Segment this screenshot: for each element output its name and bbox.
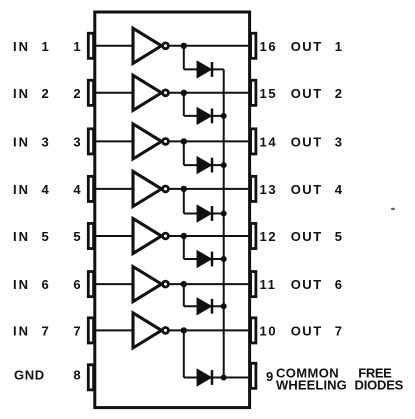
svg-text:14: 14: [260, 134, 278, 149]
wire input pin 6 to inverter F: [95, 283, 133, 285]
svg-text:1: 1: [42, 39, 49, 54]
diode D4 cathode bar: [211, 206, 214, 221]
node F junction dot: [181, 281, 187, 287]
wire inverter B output to pin 15: [166, 92, 250, 94]
svg-text:8: 8: [73, 368, 80, 383]
node B junction dot: [181, 90, 187, 96]
svg-text:15: 15: [260, 86, 278, 101]
inverter B output bubble: [163, 90, 169, 96]
svg-text:4: 4: [42, 182, 50, 197]
svg-text:IN: IN: [13, 134, 30, 149]
svg-text:1: 1: [73, 39, 80, 54]
node A junction dot: [181, 43, 187, 49]
wire node C down to diode D3: [183, 141, 185, 165]
svg-text:2: 2: [73, 86, 80, 101]
wire node G down to diode D7: [183, 330, 185, 377]
diode D5 cathode bar: [211, 252, 214, 267]
svg-text:2: 2: [335, 86, 342, 101]
inverter F output bubble: [163, 281, 169, 287]
pin 2 (left): [88, 80, 93, 105]
node C junction dot: [181, 138, 187, 144]
diode D2 anode triangle: [197, 108, 211, 124]
wire diode D7 branch to common rail: [184, 377, 224, 379]
wire diode D5 branch to common rail: [184, 258, 224, 260]
wire input pin 1 to inverter A: [95, 45, 133, 47]
pin 14 (right): [251, 129, 256, 154]
scan artifact speck: [391, 208, 395, 210]
svg-text:3: 3: [42, 134, 49, 149]
svg-text:IN: IN: [13, 39, 30, 54]
inverter C (channel 3): [133, 124, 162, 159]
junction dot diode D7 cathode on rail: [221, 375, 227, 381]
inverter E output bubble: [163, 233, 169, 239]
pin 13 (right): [251, 176, 256, 201]
svg-text:IN: IN: [13, 323, 30, 338]
inverter D output bubble: [163, 186, 169, 192]
pin 3 (left): [88, 129, 93, 154]
svg-text:5: 5: [73, 229, 80, 244]
wire input pin 3 to inverter C: [95, 140, 133, 142]
wire common diode rail (cathode bus to pin 9): [223, 69, 225, 377]
wire inverter C output to pin 14: [166, 140, 250, 142]
inverter A output bubble: [163, 43, 169, 49]
svg-text:5: 5: [42, 229, 49, 244]
wire inverter D output to pin 13: [166, 188, 250, 190]
wire input pin 2 to inverter B: [95, 92, 133, 94]
diode D1 cathode bar: [211, 62, 214, 77]
pin 8 (left): [88, 365, 93, 390]
svg-text:3: 3: [73, 134, 80, 149]
pin 9 (right): [251, 363, 256, 388]
diode D4 anode triangle: [197, 206, 211, 222]
diode D3 anode triangle: [197, 157, 211, 173]
svg-text:13: 13: [260, 182, 278, 197]
wire diode D3 branch to common rail: [184, 164, 224, 166]
wire input pin 7 to inverter G: [95, 329, 133, 331]
svg-text:6: 6: [73, 277, 80, 292]
svg-text:4: 4: [335, 182, 343, 197]
wire inverter F output to pin 11: [166, 283, 250, 285]
svg-text:6: 6: [335, 277, 342, 292]
svg-text:OUT: OUT: [291, 134, 323, 149]
IC body outline: [95, 12, 250, 408]
wire node B down to diode D2: [183, 93, 185, 116]
wire node D down to diode D4: [183, 189, 185, 214]
svg-text:9: 9: [266, 369, 273, 384]
wire diode D6 branch to common rail: [184, 305, 224, 307]
svg-text:1: 1: [335, 39, 342, 54]
wire input pin 5 to inverter E: [95, 235, 133, 237]
wire node F down to diode D6: [183, 284, 185, 306]
svg-text:16: 16: [260, 39, 278, 54]
svg-text:OUT: OUT: [291, 86, 323, 101]
node E junction dot: [181, 233, 187, 239]
pin 7 (left): [88, 318, 93, 343]
junction dot diode D5 cathode on rail: [221, 256, 227, 262]
svg-text:12: 12: [260, 229, 278, 244]
svg-text:GND: GND: [14, 368, 45, 383]
inverter G (channel 7): [133, 313, 162, 348]
svg-text:IN: IN: [13, 277, 30, 292]
svg-text:4: 4: [73, 182, 81, 197]
svg-text:OUT: OUT: [291, 277, 323, 292]
wire inverter E output to pin 12: [166, 235, 250, 237]
svg-text:OUT: OUT: [291, 323, 323, 338]
svg-text:7: 7: [335, 323, 342, 338]
diode D5 anode triangle: [197, 251, 211, 267]
svg-text:6: 6: [42, 277, 49, 292]
wire rail to pin 9: [224, 377, 250, 379]
svg-text:10: 10: [260, 323, 278, 338]
junction dot diode D2 cathode on rail: [221, 113, 227, 119]
svg-text:IN: IN: [13, 229, 30, 244]
wire diode D4 branch to common rail: [184, 213, 224, 215]
diode D6 cathode bar: [211, 299, 214, 314]
svg-text:7: 7: [42, 323, 49, 338]
svg-text:OUT: OUT: [291, 229, 323, 244]
wire inverter A output to pin 16: [166, 45, 250, 47]
pin 12 (right): [251, 223, 256, 248]
diode D7 cathode bar: [211, 370, 214, 385]
svg-text:OUT: OUT: [291, 39, 323, 54]
svg-text:5: 5: [335, 229, 342, 244]
diode D7 anode triangle: [197, 370, 211, 386]
diode D1 anode triangle: [197, 62, 211, 78]
svg-text:OUT: OUT: [291, 182, 323, 197]
diode D2 cathode bar: [211, 109, 214, 124]
pin 16 (right): [251, 33, 256, 58]
svg-text:3: 3: [335, 134, 342, 149]
pin 11 (right): [251, 272, 256, 297]
wire diode D1 branch to common rail: [184, 68, 224, 70]
diode D6 anode triangle: [197, 298, 211, 314]
pin 6 (left): [88, 272, 93, 297]
svg-text:7: 7: [73, 323, 80, 338]
wire inverter G output to pin 10: [166, 329, 250, 331]
pin 10 (right): [251, 318, 256, 343]
pin 5 (left): [88, 223, 93, 248]
wire diode D2 branch to common rail: [184, 115, 224, 117]
svg-text:WHEELING: WHEELING: [276, 377, 347, 392]
pin 4 (left): [88, 176, 93, 201]
inverter G output bubble: [163, 328, 169, 334]
junction dot diode D6 cathode on rail: [221, 303, 227, 309]
inverter E (channel 5): [133, 219, 162, 254]
inverter F (channel 6): [133, 267, 162, 302]
pin 15 (right): [251, 80, 256, 105]
svg-text:DIODES: DIODES: [355, 377, 404, 392]
svg-text:2: 2: [42, 86, 49, 101]
pin 1 (left): [88, 33, 93, 58]
inverter D (channel 4): [133, 171, 162, 206]
diode D3 cathode bar: [211, 158, 214, 173]
wire input pin 4 to inverter D: [95, 188, 133, 190]
svg-text:IN: IN: [13, 182, 30, 197]
junction dot diode D4 cathode on rail: [221, 211, 227, 217]
svg-text:IN: IN: [13, 86, 30, 101]
wire node E down to diode D5: [183, 236, 185, 259]
node G junction dot: [181, 327, 187, 333]
junction dot diode D3 cathode on rail: [221, 162, 227, 168]
inverter A (channel 1): [133, 28, 162, 63]
wire node A down to diode D1: [183, 46, 185, 70]
node D junction dot: [181, 186, 187, 192]
svg-text:11: 11: [260, 277, 277, 292]
inverter C output bubble: [163, 139, 169, 145]
inverter B (channel 2): [133, 75, 162, 110]
